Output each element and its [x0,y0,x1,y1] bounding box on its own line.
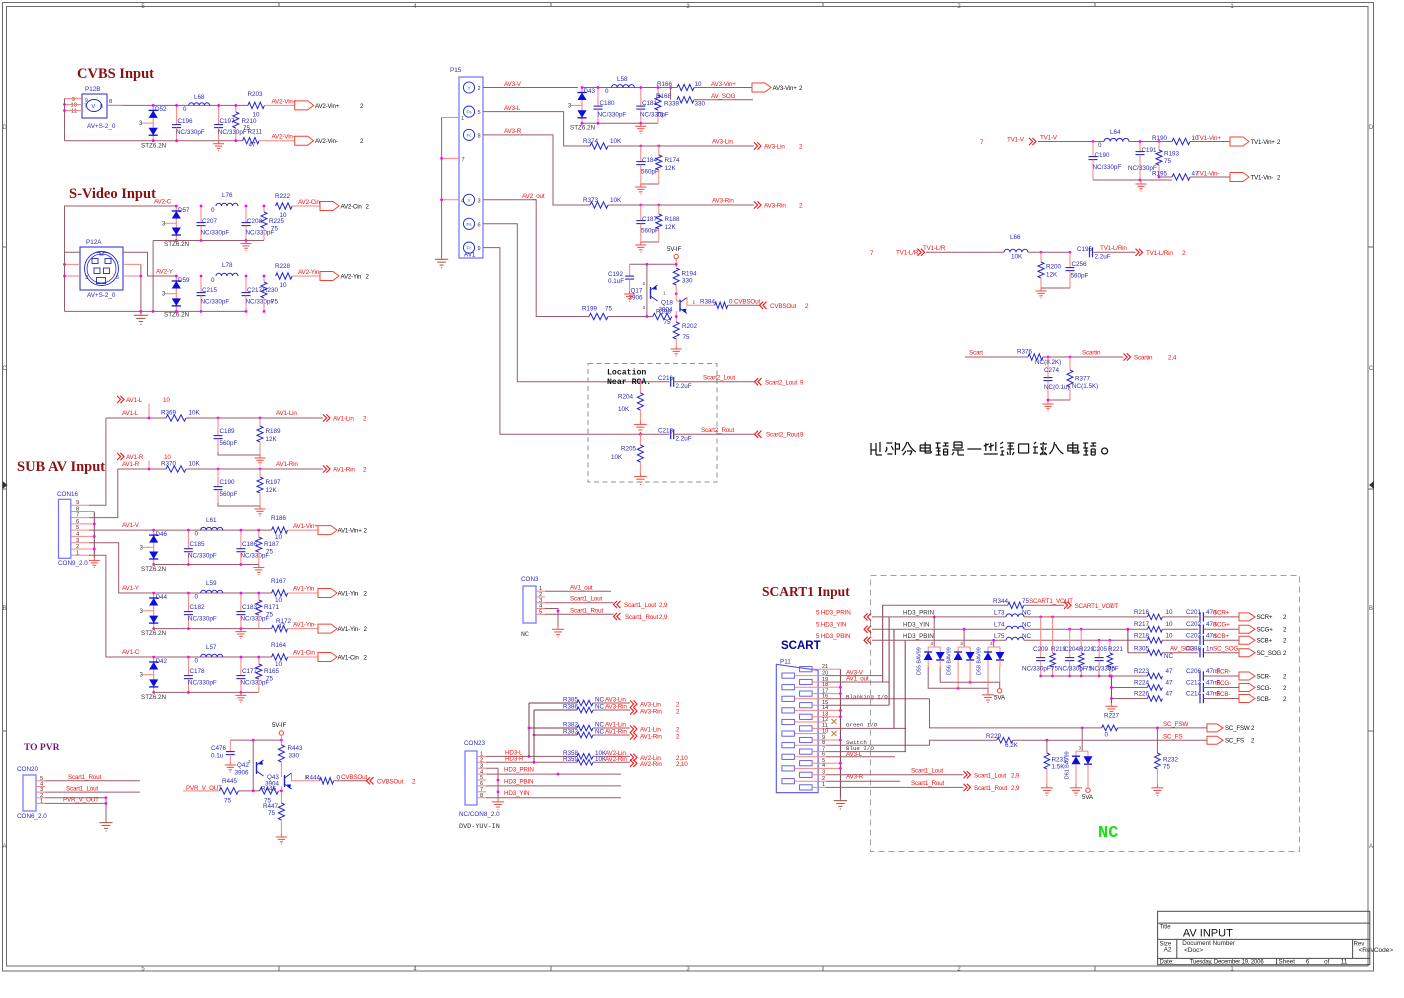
capacitor C195 [1077,246,1111,261]
resistor R229 [986,733,1019,749]
ground [987,692,989,695]
svg-text:75: 75 [657,112,665,119]
svg-text:CON6_2.0: CON6_2.0 [17,813,47,820]
svg-text:2: 2 [478,86,481,92]
P11 pin 8 [782,743,795,748]
wire R359 out [593,761,630,763]
ground [629,291,631,294]
svg-text:SCB-: SCB- [1257,696,1271,703]
wire HD3_YIN [872,628,1006,630]
svg-text:AV3-Rin: AV3-Rin [712,198,734,205]
capacitor C218 [658,427,692,442]
svg-text:L73: L73 [994,609,1005,616]
svg-text:2,10: 2,10 [676,761,688,768]
wire R172 to AV1-Yin- port [288,628,318,630]
svg-text:AV1_out: AV1_out [570,585,593,592]
svg-text:TV1-L/R: TV1-L/R [896,249,919,256]
svg-text:R203: R203 [248,91,264,98]
capacitor C197 [214,105,247,140]
net in Scart1_Lout [614,601,621,608]
svg-text:R164: R164 [271,642,287,649]
svg-text:Near RCA.: Near RCA. [607,378,651,387]
wire AV3-R row [608,204,754,206]
wire R376 to Scartin [1043,356,1124,358]
svg-text:B: B [1369,606,1373,612]
wire D61 left to ground [1075,771,1077,784]
wire AV1-L [148,404,150,419]
wire R386 out [593,709,630,711]
diode D59 [162,276,190,319]
svg-text:CVBSOut: CVBSOut [770,303,796,310]
svg-text:R386: R386 [563,704,579,711]
wire R199 to R198 [608,316,653,318]
resistor R193 [1156,142,1180,178]
ground [1047,401,1049,404]
svg-text:10K: 10K [610,197,622,204]
svg-text:CON9_2.0: CON9_2.0 [58,560,88,567]
wire HD3_PBIN [872,639,1006,641]
svg-text:2: 2 [248,759,251,765]
wire CON16 pin 3 [71,542,89,544]
svg-text:C: C [1369,366,1374,372]
capacitor C183 [236,593,269,629]
resistor R231 [1044,740,1067,784]
wire Blanking to SC_FSW [930,699,1102,728]
svg-text:8: 8 [822,740,825,746]
svg-text:C288: C288 [1186,645,1202,652]
svg-text:0: 0 [211,277,215,284]
ground [441,256,443,260]
net out Scart1_Rout [964,784,971,791]
resistor R383 [563,729,605,738]
svg-text:R167: R167 [271,578,287,585]
svg-text:TV1-L/Rin: TV1-L/Rin [1100,245,1127,252]
wire R385 out [593,702,630,704]
P11 pin 19 [800,679,813,684]
svg-text:TV1-Vin-: TV1-Vin- [1196,171,1219,178]
svg-text:10: 10 [280,282,288,289]
wire SCG+ tap to R305 [1127,629,1129,653]
svg-text:AV1-Cin: AV1-Cin [293,650,315,657]
svg-text:R198: R198 [656,309,672,316]
wire PVR_V_OUT to ground link [45,797,106,799]
resistor R232 [1155,728,1179,785]
capacitor C190 tv [1089,142,1122,181]
wire C190 to R197 bottom [218,503,260,506]
svg-text:Scart1_Lout: Scart1_Lout [911,768,943,775]
ground [1046,785,1048,788]
capacitor C213 [1186,680,1221,693]
ground [1156,785,1158,788]
svg-text:AV1-L: AV1-L [126,397,143,404]
resistor R223 [1134,668,1173,679]
resistor R211 [243,129,263,149]
ground [140,311,142,315]
svg-text:10: 10 [275,661,283,668]
wire Scart [965,356,1028,358]
wire HD3_PBIN con23 [486,785,621,787]
wire C187 R188 rail [641,241,659,243]
svg-text:AV2-C: AV2-C [154,199,172,206]
svg-text:AV2-Yin: AV2-Yin [298,269,320,276]
transistor Q43 [265,773,292,789]
svg-text:10: 10 [695,81,703,88]
svg-text:12: 12 [822,717,828,723]
svg-text:1: 1 [663,291,666,297]
wire CON16 pin 8 [71,511,89,513]
svg-text:AV1-Cin: AV1-Cin [338,654,360,661]
resistor R222 [275,193,292,219]
svg-text:Q18: Q18 [661,300,673,307]
port AV2-Vin- [295,136,314,145]
svg-text:3: 3 [643,305,646,311]
net out AV2-Lin [630,754,637,761]
svg-text:75: 75 [1163,764,1171,771]
svg-text:CVBS Input: CVBS Input [77,66,154,82]
wire R444 to CVBSOut [334,780,367,782]
resistor R217 [1134,621,1173,632]
svg-text:11: 11 [71,109,77,115]
wire pin7 to AV1-R row [89,469,118,518]
wire Blue I/O [826,751,906,753]
wire L73 to R216 [1024,616,1147,618]
svg-text:L57: L57 [206,644,217,651]
svg-text:D44: D44 [156,594,168,601]
svg-text:HD3_YIN: HD3_YIN [903,622,930,629]
net entry AV1-R [117,453,124,460]
ground [1140,181,1142,184]
svg-text:AV1: AV1 [464,252,476,259]
wire to AV3-Vin+ port [694,87,752,89]
net out SCART1_VOUT [1064,602,1071,609]
svg-text:AV3-V: AV3-V [504,81,522,88]
svg-text:R369: R369 [161,410,177,417]
port AV3-Vin+ [752,83,771,92]
svg-text:R218: R218 [1134,632,1150,639]
svg-text:STZ6.2N: STZ6.2N [141,566,167,573]
svg-text:C217: C217 [247,287,263,294]
svg-text:HD3_PRIN: HD3_PRIN [504,767,534,774]
svg-text:R344: R344 [993,598,1009,605]
svg-text:AV2-Vin+: AV2-Vin+ [272,98,297,105]
svg-text:Scart: Scart [969,350,983,357]
diode D61 [1065,751,1093,779]
diode D58 [977,647,1005,675]
net out TV1-L/Rin [1136,249,1143,256]
diode D44 [140,593,168,637]
svg-text:STZ6.2N: STZ6.2N [164,241,190,248]
svg-text:5 HD3_PRIN: 5 HD3_PRIN [816,609,851,616]
wire R382 out [593,727,630,729]
svg-text:C182: C182 [190,604,206,611]
wire R383 out [593,734,630,736]
ground [640,123,642,126]
svg-text:R187: R187 [264,541,280,548]
resistor R197 [257,469,281,506]
wire R445 R446 [238,790,259,792]
resistor R358 [563,750,607,759]
svg-text:AV2-Cin: AV2-Cin [341,203,363,210]
power 5VA [1086,788,1090,792]
P11 pin 7 [800,749,813,754]
ground [245,241,247,244]
title block [1158,911,1370,964]
P11 pin 11 [800,726,813,731]
svg-text:STZ6.2N: STZ6.2N [141,694,167,701]
svg-text:47: 47 [249,142,257,149]
wire CON16 pin 4 [71,535,89,537]
svg-text:2,9: 2,9 [659,614,668,621]
svg-text:HD3_YIN: HD3_YIN [504,790,530,797]
wire to TV1-Vin+ port [1190,141,1230,143]
resistor R386 [563,704,605,713]
resistor R165 [256,657,280,692]
svg-text:AV1-Yin-: AV1-Yin- [293,621,316,628]
svg-text:R226: R226 [1134,691,1150,698]
wire P15 ground side [442,117,459,119]
svg-text:R373: R373 [583,197,599,204]
diode D42 [140,657,168,701]
svg-text:Fs: Fs [466,110,472,115]
svg-text:NC/330pF: NC/330pF [1058,665,1087,672]
svg-text:SCR+: SCR+ [1213,609,1230,616]
svg-text:C192: C192 [608,271,624,278]
capacitor C288 [1186,645,1214,657]
capacitor C476 [211,740,235,762]
port SCB- [1239,695,1255,703]
fold mark right [1369,481,1374,489]
capacitor C204 [1065,629,1074,676]
capacitor C203 [1186,632,1217,645]
transistor Q17 [629,281,667,311]
svg-text:R224: R224 [1134,680,1150,687]
svg-text:R227: R227 [1104,713,1120,720]
ground [240,692,242,695]
svg-text:C215: C215 [202,287,218,294]
resistor R443 [278,740,303,777]
svg-text:L78: L78 [222,262,233,269]
wire R384 to CVBSOut [728,304,760,306]
port SCR- [1239,672,1255,680]
wire Q18 emitter [675,311,677,322]
resistor R227 [1102,713,1120,739]
wire L75 to R218 [1024,639,1147,641]
port AV2-Cin [320,202,339,211]
wire CON16 pin 9 [71,504,89,506]
wire TV1-Vin- row [1159,176,1172,178]
wire CON16 pin 1 [71,554,89,556]
svg-text:AV1-V: AV1-V [122,522,140,529]
capacitor C274 [1044,357,1070,400]
svg-text:10K: 10K [611,454,623,461]
wire pin9 to AV1-L row [89,418,106,505]
capacitor C217 [242,276,275,311]
wire Blanking I/O [826,698,930,700]
svg-text:12K: 12K [665,165,677,172]
resistor R168 [655,88,672,124]
svg-text:R202: R202 [682,323,698,330]
resistor R374 [583,138,622,149]
svg-text:5: 5 [116,275,119,281]
ground [1075,785,1077,788]
port SC_FS [1207,736,1223,744]
no-connect pin 12 [832,719,837,724]
svg-text:10: 10 [253,112,261,119]
wire P15 pin9 to Scart2_Rout row [483,248,670,435]
svg-text:CON16: CON16 [57,491,78,498]
svg-text:R445: R445 [222,778,238,785]
P11 pin 9 [800,737,813,742]
svg-text:5V-IF: 5V-IF [667,246,681,253]
net out AV1-Rin [323,465,330,472]
wire C195 to TV1-L/Rin [1094,251,1136,253]
fold mark left [3,481,8,489]
capacitor C182 [184,593,217,629]
svg-text:R193: R193 [1164,151,1180,158]
svg-text:AV2-Rin: AV2-Rin [640,761,662,768]
wire rail to R172 [259,628,272,630]
resistor R216 [1134,609,1173,620]
svg-text:R383: R383 [563,729,579,736]
svg-text:1.5K: 1.5K [1052,764,1066,771]
svg-text:A2: A2 [1164,947,1172,954]
wire HD3-R [486,761,577,763]
inductor L68 [183,94,210,113]
resistor R226 [1134,691,1173,702]
P11 pin 20 [782,673,795,678]
ground [240,629,242,632]
resistor R202 [673,322,697,346]
svg-text:R200: R200 [1046,264,1062,271]
chinese annotation [871,442,1108,455]
wire Green I/O [826,727,906,729]
capacitor C216 [658,375,692,390]
svg-text:R446: R446 [261,786,277,793]
wire Q43 collector to R444 [292,773,320,781]
wire R305 to C288 [1162,652,1198,654]
diode stub D55 [933,617,935,647]
wire to AV2-Vin- port [259,140,295,142]
P11 pin 18 [782,685,795,690]
wire AV_SOG branch [670,88,672,100]
wire bus to R386 [534,709,577,711]
inductor L57 [195,644,223,665]
svg-text:AV1-Lin: AV1-Lin [640,727,661,734]
svg-text:47: 47 [1166,680,1174,687]
svg-text:Scart1_Rout: Scart1_Rout [974,785,1007,792]
P11 pin 3 [800,772,813,777]
svg-text:2.2uF: 2.2uF [1095,254,1111,261]
svg-text:R171: R171 [264,604,280,611]
inductor L61 [195,517,223,538]
net in Scart1_Rout [614,613,621,620]
svg-text:R374: R374 [583,138,599,145]
svg-text:NC: NC [595,697,605,704]
svg-text:AV1-L: AV1-L [122,410,139,417]
svg-text:R339: R339 [664,101,680,108]
wire AV1_out riser to R344 [882,605,884,682]
ground [105,819,107,823]
wire pin3 to AV1-Y row [89,543,154,593]
ground [218,141,220,144]
svg-text:7: 7 [462,157,465,163]
svg-text:Title: Title [1160,924,1172,930]
wire AV2 video net [107,104,248,106]
svg-text:SCR+: SCR+ [1257,614,1273,621]
resistor R224 [1134,680,1173,691]
capacitor C189 [214,418,238,452]
svg-text:CON20: CON20 [17,766,38,773]
svg-text:Scart1_Lout: Scart1_Lout [974,772,1006,779]
svg-text:D: D [1369,125,1374,131]
svg-text:HD3_PBIN: HD3_PBIN [903,633,934,640]
svg-text:6: 6 [478,222,481,228]
net out AV3-Rin [754,201,761,208]
svg-text:L64: L64 [1110,129,1121,136]
svg-text:Scart2_Lout: Scart2_Lout [765,379,797,386]
power 5V-IF [674,254,678,258]
ground [259,455,261,458]
svg-text:1: 1 [693,300,696,306]
P11 pin 16 [782,696,795,701]
svg-text:Scart1_Lout: Scart1_Lout [570,596,602,603]
wire AV3 rail [582,122,658,124]
wire C213 to port [1203,687,1239,689]
svg-text:3: 3 [85,275,88,281]
svg-text:D56 BAV99: D56 BAV99 [947,647,953,675]
svg-text:Fs: Fs [466,222,472,227]
svg-text:R359: R359 [563,756,579,763]
location box [588,364,717,483]
capacitor C187 [636,205,659,242]
svg-text:R222: R222 [275,193,291,200]
svg-text:75: 75 [605,306,613,313]
svg-text:9: 9 [76,500,79,506]
capacitor C177 [236,657,269,692]
resistor R171 [256,593,280,629]
resistor R166 [657,81,702,91]
port AV1-Vin+ [318,526,337,535]
wire rail to ground [1110,676,1112,703]
svg-text:C185: C185 [190,541,206,548]
svg-text:2,4: 2,4 [1168,355,1177,362]
svg-text:75: 75 [271,299,279,306]
svg-text:12K: 12K [665,224,677,231]
wire R200 C256 rail [1041,287,1070,289]
wire P12A shield pins [65,263,81,265]
resistor R370 [161,461,201,473]
wire 5V rail Q17 [675,259,677,267]
P11 pin 10 [782,731,795,736]
net out AV2-Rin [630,760,637,767]
wire AV1-R [148,461,150,470]
svg-text:of: of [1324,958,1330,965]
wire HD3_YIN riser to Green I/O [893,629,895,728]
svg-text:10: 10 [280,212,288,219]
svg-text:AV2-Vin+: AV2-Vin+ [315,103,340,110]
svg-text:8: 8 [478,134,481,140]
svg-text:C190: C190 [220,479,236,486]
wire S-Video ground rail [65,310,247,312]
wire rail [154,691,259,693]
svg-text:Q17: Q17 [631,288,643,295]
capacitor C201 [1186,609,1217,622]
ground [557,626,559,629]
svg-text:R190: R190 [1152,135,1168,142]
svg-text:560pF: 560pF [220,440,238,447]
wire TV1 rail [1093,179,1172,181]
ground [640,242,642,245]
